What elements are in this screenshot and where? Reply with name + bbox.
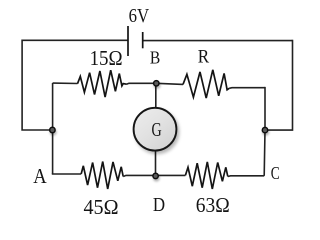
junction right node dot [262, 127, 267, 132]
junction node D dot [153, 173, 158, 178]
wire bottom row left stub (node A corner) [53, 172, 82, 175]
svg-text:6V: 6V [129, 5, 150, 27]
svg-text:D: D [153, 194, 165, 216]
junction left node dot [50, 127, 55, 132]
wire top row into node B [127, 82, 157, 85]
resistor R zigzag [183, 70, 229, 98]
svg-text:C: C [271, 163, 280, 183]
svg-text:B: B [150, 47, 160, 67]
resistor 45ohm zigzag [81, 162, 123, 190]
wire left bridge rail [52, 83, 54, 174]
resistor 15ohm zigzag [78, 70, 127, 97]
wire right bridge rail [263, 87, 266, 176]
wire right outer vertical [265, 40, 293, 130]
svg-text:45Ω: 45Ω [84, 195, 119, 219]
wire left outer vertical [22, 40, 52, 131]
wire resistor R to top-right corner [229, 87, 265, 90]
battery V1 right plate (short) [142, 32, 144, 48]
wire galvanometer down to node D [155, 150, 157, 176]
wire node B down to galvanometer [155, 84, 157, 109]
wire 63ohm to bottom-right corner [228, 175, 264, 178]
wire 45ohm to node D [123, 175, 155, 176]
wire top outer right (battery to top-right corner) [143, 40, 293, 42]
wire top row left stub [53, 82, 78, 84]
wire top outer left (battery to top-left corner) [22, 39, 128, 41]
battery V1 left plate (long) [127, 26, 129, 56]
resistor 63ohm zigzag [185, 162, 227, 189]
galvanometer G body [134, 108, 177, 151]
wire node D to 63ohm [156, 174, 186, 176]
svg-text:A: A [33, 164, 47, 188]
wire node B to resistor R [156, 83, 183, 84]
svg-text:R: R [198, 46, 210, 67]
svg-text:15Ω: 15Ω [90, 46, 123, 70]
svg-text:G: G [152, 119, 162, 141]
junction node B dot [154, 81, 159, 86]
svg-text:63Ω: 63Ω [196, 193, 230, 217]
